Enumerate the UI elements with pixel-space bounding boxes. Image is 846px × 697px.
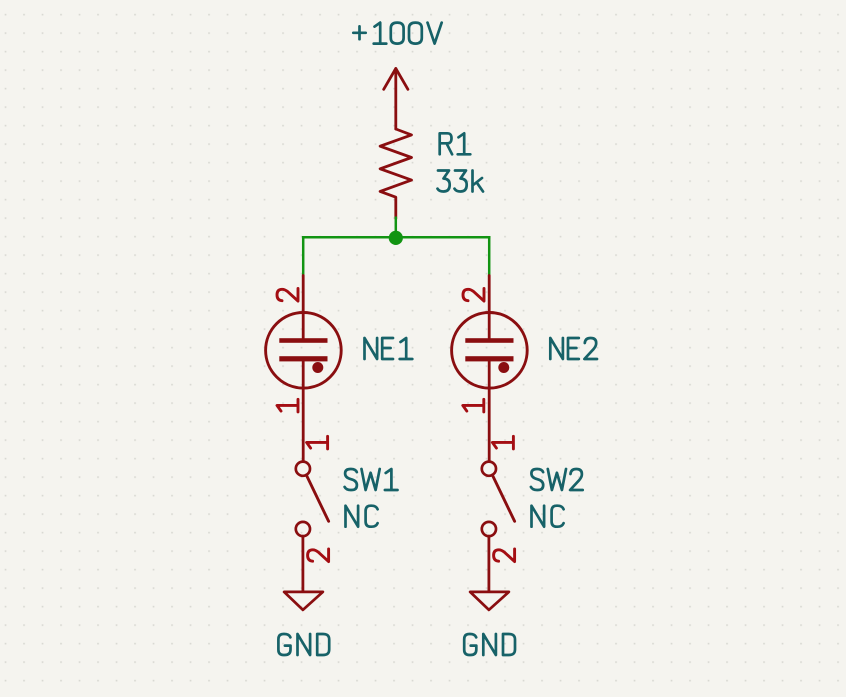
pin 1 of SW1 xyxy=(307,436,328,449)
label SW2 xyxy=(531,469,583,490)
label NE1 xyxy=(365,338,413,359)
pin 1 of NE1 xyxy=(277,399,298,412)
wire resistor to junction xyxy=(395,218,398,238)
wire SW1 to ground xyxy=(301,536,304,591)
value 33k xyxy=(438,171,484,192)
resistor R1 xyxy=(380,129,411,219)
ground symbol left xyxy=(284,592,323,610)
ground symbol right xyxy=(470,592,509,610)
switch SW2 xyxy=(482,462,515,537)
switch SW1 xyxy=(296,462,329,537)
net label +100V xyxy=(353,23,441,44)
junction xyxy=(389,231,403,245)
label SW1 xyxy=(345,469,398,490)
pin 2 of NE1 xyxy=(277,289,298,302)
neon lamp NE2 xyxy=(452,276,528,462)
neon lamp NE1 xyxy=(266,276,342,462)
label NC of SW2 xyxy=(532,506,564,527)
net label GND left xyxy=(278,634,329,655)
wire down to NE2 xyxy=(488,237,491,275)
label NC of SW1 xyxy=(346,506,378,527)
pin 2 of NE2 xyxy=(463,289,484,302)
pin 2 of SW1 xyxy=(308,549,329,562)
label NE2 xyxy=(550,338,597,359)
wire SW2 to ground xyxy=(487,536,490,591)
net label GND right xyxy=(464,634,515,655)
wire horizontal bus xyxy=(303,236,489,239)
wire down to NE1 xyxy=(302,237,305,275)
power symbol +100V xyxy=(384,69,408,130)
pin 1 of SW2 xyxy=(492,436,513,449)
pin 2 of SW2 xyxy=(494,549,515,562)
label R1 xyxy=(440,133,471,154)
pin 1 of NE2 xyxy=(463,399,484,412)
